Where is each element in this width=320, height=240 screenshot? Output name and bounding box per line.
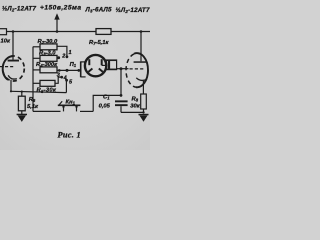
svg-text:Л3-6АЛ5: Л3-6АЛ5 — [85, 7, 113, 14]
svg-text:2: 2 — [61, 54, 65, 60]
svg-text:R2-30,0: R2-30,0 — [38, 39, 59, 45]
svg-text:R7-5,1к: R7-5,1к — [89, 40, 110, 46]
svg-text:5,1к: 5,1к — [27, 104, 39, 110]
svg-text:R3-3,0: R3-3,0 — [39, 50, 56, 56]
svg-text:С1: С1 — [103, 94, 110, 100]
svg-text:Кн1: Кн1 — [66, 100, 76, 106]
svg-text:30к: 30к — [130, 104, 140, 110]
svg-text:Рис. 1: Рис. 1 — [58, 131, 81, 140]
svg-text:R6: R6 — [29, 97, 36, 103]
svg-text:+150в,25ма: +150в,25ма — [40, 5, 82, 12]
svg-text:R8: R8 — [132, 97, 139, 103]
svg-text:1: 1 — [69, 50, 72, 56]
svg-text:4: 4 — [63, 75, 67, 81]
svg-text:3: 3 — [57, 72, 60, 78]
svg-text:½Л2-12АТ7: ½Л2-12АТ7 — [2, 6, 36, 13]
svg-text:10к: 10к — [1, 39, 11, 45]
svg-text:0,05: 0,05 — [99, 103, 111, 109]
svg-text:R5-30к: R5-30к — [37, 88, 57, 94]
svg-text:R4-300к: R4-300к — [36, 62, 58, 68]
svg-text:П1: П1 — [70, 62, 77, 68]
svg-text:½Л2-12АТ7: ½Л2-12АТ7 — [116, 7, 150, 14]
